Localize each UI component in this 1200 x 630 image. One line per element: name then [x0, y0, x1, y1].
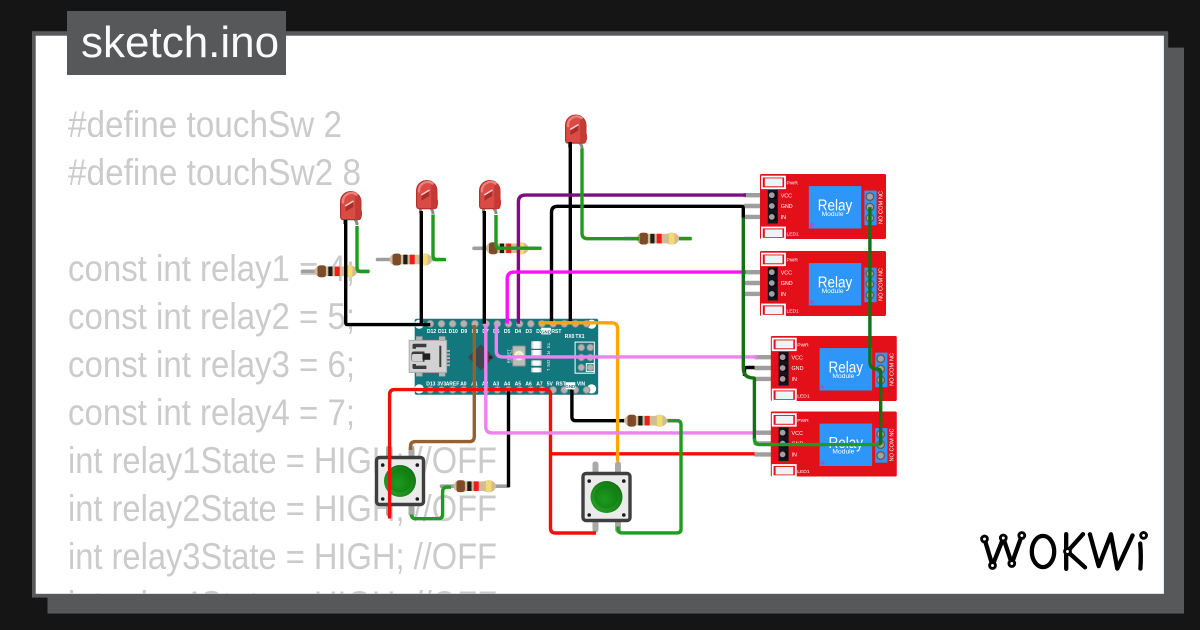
svg-text:#define touchSw 2: #define touchSw 2 — [68, 104, 342, 145]
svg-text:D10: D10 — [449, 329, 458, 335]
svg-text:D5: D5 — [504, 329, 511, 335]
svg-text:A6: A6 — [525, 381, 532, 387]
svg-text:RST: RST — [551, 329, 561, 335]
svg-text:D3: D3 — [525, 329, 532, 335]
svg-text:const int relay4 = 7;: const int relay4 = 7; — [68, 392, 355, 433]
svg-text:VIN: VIN — [577, 381, 586, 387]
svg-text:const int relay1 = 4;: const int relay1 = 4; — [68, 248, 355, 289]
svg-text:GND: GND — [541, 329, 551, 334]
svg-text:D9: D9 — [461, 329, 468, 335]
svg-text:TX: TX — [546, 343, 551, 349]
svg-text:5V: 5V — [547, 381, 554, 387]
svg-text:AREF: AREF — [446, 381, 460, 387]
svg-text:A3: A3 — [493, 381, 500, 387]
svg-text:RST: RST — [556, 381, 566, 387]
svg-text:D4: D4 — [515, 329, 522, 335]
svg-text:int relay1State = HIGH; //OFF: int relay1State = HIGH; //OFF — [68, 440, 497, 481]
svg-text:ON: ON — [546, 360, 551, 367]
svg-text:RX0: RX0 — [565, 334, 575, 340]
svg-text:sketch.ino: sketch.ino — [81, 18, 279, 67]
svg-text:A0: A0 — [460, 381, 467, 387]
svg-text:A5: A5 — [515, 381, 522, 387]
svg-text:const int relay2 = 5;: const int relay2 = 5; — [68, 296, 355, 337]
svg-text:D12: D12 — [427, 329, 436, 335]
svg-text:int relay2State = HIGH; //OFF: int relay2State = HIGH; //OFF — [68, 488, 497, 529]
svg-text:#define touchSw2 8: #define touchSw2 8 — [68, 152, 361, 193]
svg-text:GND: GND — [565, 384, 575, 389]
svg-text:int relay3State = HIGH; //OFF: int relay3State = HIGH; //OFF — [68, 536, 497, 577]
svg-text:const int relay3 = 6;: const int relay3 = 6; — [68, 344, 355, 385]
svg-text:A4: A4 — [504, 381, 511, 387]
svg-text:D13: D13 — [426, 381, 435, 387]
svg-text:A7: A7 — [536, 381, 543, 387]
svg-text:TX1: TX1 — [575, 334, 584, 340]
svg-text:D11: D11 — [438, 329, 447, 335]
